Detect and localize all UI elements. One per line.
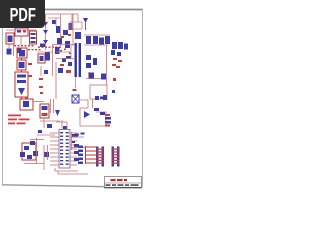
svg-text:PDF: PDF: [10, 6, 36, 26]
